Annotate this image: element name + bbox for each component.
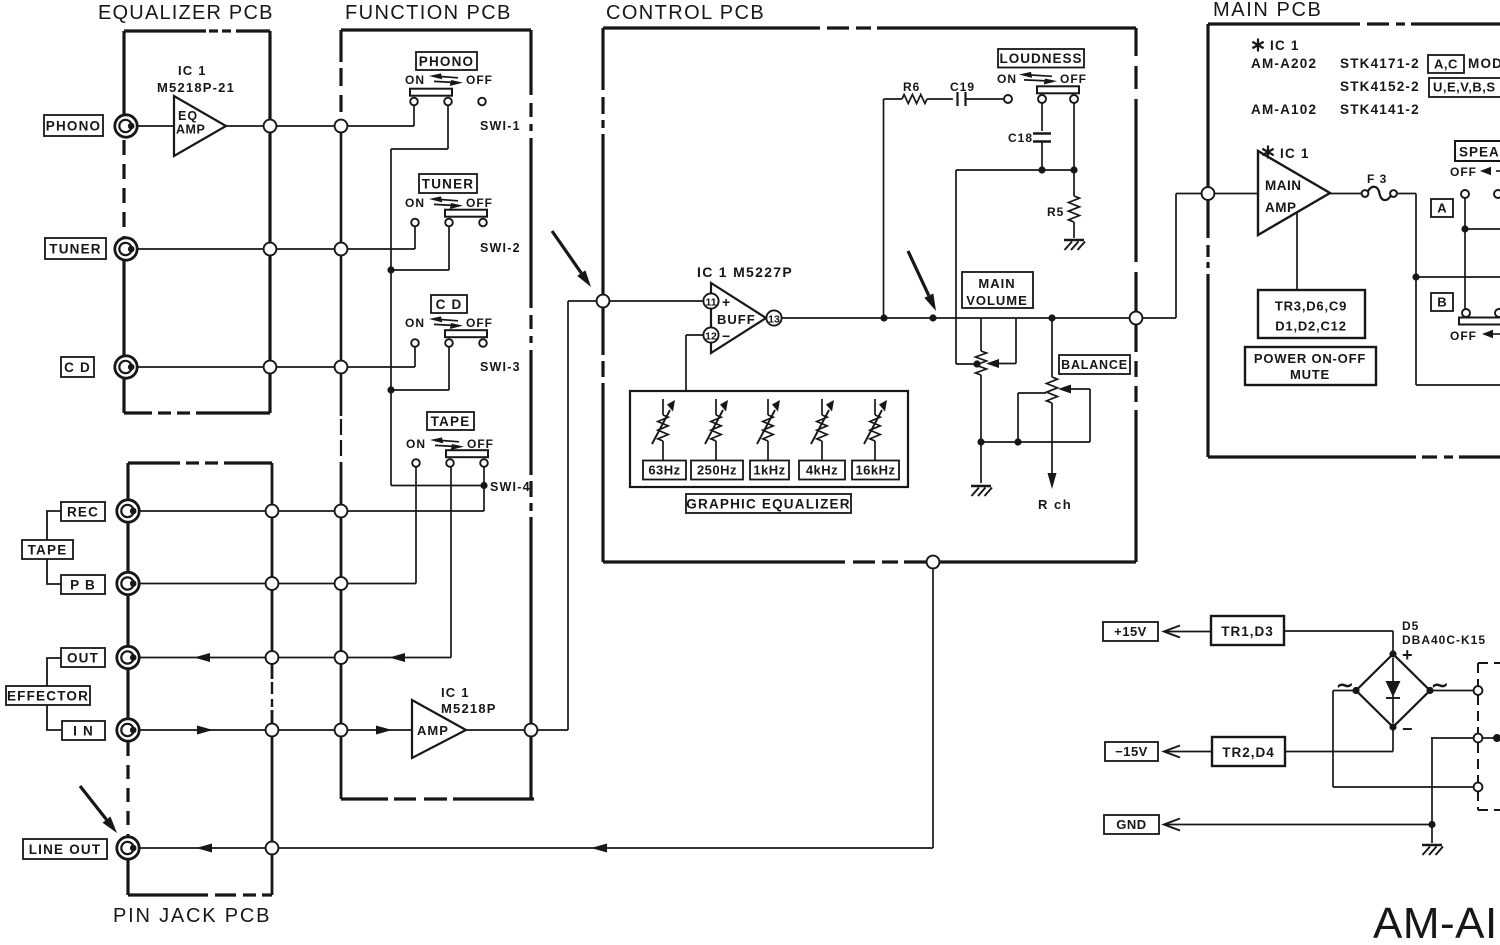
svg-text:C D: C D <box>436 297 463 312</box>
svg-text:OFF: OFF <box>466 316 493 330</box>
svg-text:TR1,D3: TR1,D3 <box>1221 624 1274 639</box>
svg-text:SWI-3: SWI-3 <box>480 360 521 374</box>
svg-text:12: 12 <box>705 331 717 343</box>
svg-text:AMP: AMP <box>176 123 205 137</box>
svg-text:BALANCE: BALANCE <box>1061 358 1128 372</box>
svg-text:I N: I N <box>73 723 94 738</box>
svg-text:LOUDNESS: LOUDNESS <box>999 51 1082 66</box>
svg-text:A: A <box>1437 201 1447 216</box>
svg-text:M5218P-21: M5218P-21 <box>157 80 235 95</box>
svg-text:STK4171-2: STK4171-2 <box>1340 56 1420 71</box>
svg-text:SWI-4: SWI-4 <box>490 480 531 494</box>
svg-text:+: + <box>722 294 730 310</box>
svg-text:POWER ON-OFF: POWER ON-OFF <box>1254 351 1366 366</box>
svg-text:M5218P: M5218P <box>441 701 497 716</box>
svg-text:AMP: AMP <box>417 723 449 738</box>
svg-text:C D: C D <box>64 360 91 375</box>
svg-text:MAIN PCB: MAIN PCB <box>1213 0 1322 21</box>
svg-text:STK4152-2: STK4152-2 <box>1340 79 1420 94</box>
svg-text:SPEA: SPEA <box>1459 145 1500 160</box>
svg-text:1kHz: 1kHz <box>753 463 785 478</box>
svg-text:250Hz: 250Hz <box>697 463 737 478</box>
svg-text:OFF: OFF <box>1060 72 1087 86</box>
svg-text:GND: GND <box>1116 817 1146 832</box>
svg-text:−: − <box>722 328 730 344</box>
svg-text:D5: D5 <box>1402 619 1419 633</box>
svg-text:EFFECTOR: EFFECTOR <box>7 688 89 703</box>
svg-text:SWI-1: SWI-1 <box>480 119 521 133</box>
svg-text:REC: REC <box>67 504 99 519</box>
svg-text:DBA40C-K15: DBA40C-K15 <box>1402 633 1486 647</box>
svg-text:P B: P B <box>70 577 96 592</box>
svg-text:MOD: MOD <box>1468 56 1500 71</box>
svg-text:AMP: AMP <box>1265 200 1297 215</box>
svg-text:R5: R5 <box>1047 205 1064 219</box>
svg-text:ON: ON <box>406 437 426 451</box>
svg-text:AM-AI: AM-AI <box>1373 899 1498 945</box>
svg-text:IC 1: IC 1 <box>178 63 207 78</box>
svg-text:STK4141-2: STK4141-2 <box>1340 102 1420 117</box>
svg-text:PIN JACK PCB: PIN JACK PCB <box>113 905 271 927</box>
svg-text:C18: C18 <box>1008 131 1033 145</box>
svg-text:16kHz: 16kHz <box>855 463 895 478</box>
svg-text:IC 1: IC 1 <box>1280 146 1310 161</box>
svg-text:EQ: EQ <box>178 109 198 123</box>
svg-text:CONTROL PCB: CONTROL PCB <box>606 2 765 24</box>
svg-text:F 3: F 3 <box>1367 172 1387 186</box>
svg-text:ON: ON <box>405 73 425 87</box>
svg-text:AM-A102: AM-A102 <box>1251 102 1317 117</box>
svg-text:R ch: R ch <box>1038 497 1072 512</box>
svg-text:+: + <box>1402 645 1413 665</box>
svg-text:ON: ON <box>405 316 425 330</box>
svg-text:MAIN: MAIN <box>1265 178 1302 193</box>
svg-text:IC 1 M5227P: IC 1 M5227P <box>697 264 793 280</box>
svg-text:TUNER: TUNER <box>422 176 475 191</box>
svg-text:∼: ∼ <box>1431 674 1449 697</box>
svg-text:OFF: OFF <box>466 196 493 210</box>
svg-text:B: B <box>1437 295 1446 310</box>
svg-text:C19: C19 <box>950 80 975 94</box>
svg-text:SWI-2: SWI-2 <box>480 241 521 255</box>
svg-text:OUT: OUT <box>67 650 99 665</box>
svg-text:11: 11 <box>705 297 716 309</box>
svg-text:R6: R6 <box>903 80 920 94</box>
svg-text:OFF: OFF <box>466 73 493 87</box>
svg-text:LINE OUT: LINE OUT <box>29 842 102 857</box>
svg-text:4kHz: 4kHz <box>806 463 838 478</box>
svg-text:IC 1: IC 1 <box>441 685 470 700</box>
svg-text:TAPE: TAPE <box>431 414 471 429</box>
svg-text:FUNCTION PCB: FUNCTION PCB <box>345 2 512 24</box>
svg-text:PHONO: PHONO <box>46 118 102 133</box>
svg-text:13: 13 <box>768 314 780 326</box>
svg-text:TR3,D6,C9: TR3,D6,C9 <box>1275 299 1347 314</box>
svg-text:U,E,V,B,S: U,E,V,B,S <box>1433 80 1496 95</box>
svg-text:−: − <box>1402 719 1413 739</box>
svg-text:MUTE: MUTE <box>1290 367 1330 382</box>
svg-text:D1,D2,C12: D1,D2,C12 <box>1275 319 1347 334</box>
svg-text:VOLUME: VOLUME <box>966 293 1028 308</box>
svg-text:OFF: OFF <box>1450 329 1477 343</box>
svg-text:TUNER: TUNER <box>49 241 102 256</box>
svg-text:AM-A202: AM-A202 <box>1251 56 1317 71</box>
svg-text:∼: ∼ <box>1336 674 1354 697</box>
svg-text:BUFF: BUFF <box>717 312 756 327</box>
svg-text:MAIN: MAIN <box>978 276 1015 291</box>
svg-text:TAPE: TAPE <box>28 542 68 557</box>
svg-text:GRAPHIC EQUALIZER: GRAPHIC EQUALIZER <box>686 496 850 511</box>
svg-text:63Hz: 63Hz <box>648 463 680 478</box>
svg-text:TR2,D4: TR2,D4 <box>1222 745 1275 760</box>
svg-text:−15V: −15V <box>1115 744 1148 759</box>
svg-text:ON: ON <box>997 72 1017 86</box>
svg-text:ON: ON <box>405 196 425 210</box>
svg-text:OFF: OFF <box>467 437 494 451</box>
svg-text:EQUALIZER PCB: EQUALIZER PCB <box>98 2 274 24</box>
svg-text:PHONO: PHONO <box>419 54 475 69</box>
svg-text:IC 1: IC 1 <box>1270 38 1300 53</box>
svg-text:OFF: OFF <box>1450 165 1477 179</box>
svg-text:A,C: A,C <box>1434 57 1458 72</box>
svg-text:+15V: +15V <box>1114 624 1147 639</box>
